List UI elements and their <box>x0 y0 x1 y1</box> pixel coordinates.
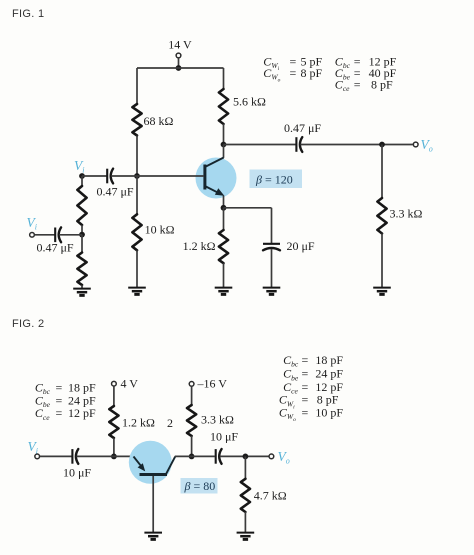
svg-text:5.6 kΩ: 5.6 kΩ <box>233 95 266 109</box>
label Vo <box>421 137 433 154</box>
resistor RL 4.7k fig2 <box>241 479 250 512</box>
resistor RL 3.3k <box>377 198 386 234</box>
wire RC to collector line <box>191 436 193 456</box>
node output junction <box>379 142 385 148</box>
node divider junction <box>134 173 140 179</box>
transistor Q1 highlight <box>196 158 237 199</box>
transistor Q1 collector lead <box>205 158 224 168</box>
wire input to Cs <box>35 234 55 236</box>
wire emitter branch horizontal <box>224 207 272 209</box>
wire collector to C2 fig2 <box>175 455 215 457</box>
wire supply stub <box>178 58 180 68</box>
svg-text:Vi: Vi <box>27 215 37 232</box>
wire R3 to collector node <box>223 124 225 145</box>
label 5.6 kOhm <box>233 95 266 109</box>
wire output to RL fig2 <box>244 456 246 478</box>
label Cbc list2 right <box>283 353 343 369</box>
ground Q2 base <box>144 533 162 540</box>
svg-text:68 kΩ: 68 kΩ <box>144 114 174 128</box>
svg-text:Vi: Vi <box>74 158 84 175</box>
transistor Q1 emitter lead <box>205 186 220 194</box>
supply label 14 V <box>168 37 192 51</box>
svg-text:FIG. 2: FIG. 2 <box>12 318 44 330</box>
supply terminal 4V <box>112 381 117 386</box>
transistor Q1 base bar <box>203 165 206 190</box>
node supply junction <box>176 65 182 71</box>
label 10 uF output fig2 <box>210 430 238 444</box>
label 68 kOhm <box>144 114 174 128</box>
transistor Q2 emitter lead <box>134 457 143 468</box>
svg-text:FIG. 1: FIG. 1 <box>12 8 44 20</box>
svg-text:0.47 μF: 0.47 μF <box>37 241 74 255</box>
wire R4 to ground <box>223 263 225 287</box>
label 3.3 kOhm <box>390 207 423 221</box>
supply terminal -16V <box>189 382 194 387</box>
label Cce list2 right <box>283 380 343 396</box>
label Cbc = 12 pF <box>335 55 397 71</box>
wire RL to ground <box>381 234 383 288</box>
transistor Q1 emitter arrow <box>215 188 224 196</box>
supply terminal 14V <box>176 53 181 58</box>
svg-text:1.2 kΩ: 1.2 kΩ <box>183 239 216 253</box>
label 4.7 kOhm fig2 <box>254 489 287 503</box>
label Cce = 8 pF <box>335 78 393 94</box>
resistor RC 3.3k fig2 <box>187 405 196 436</box>
svg-text:20 μF: 20 μF <box>287 239 315 253</box>
wire base node to R2 <box>136 176 138 214</box>
wire R1 to base node <box>136 136 138 177</box>
wire R2 to ground <box>136 250 138 287</box>
label Vo fig2 <box>278 449 290 466</box>
label CWo list2 right <box>279 405 344 423</box>
wire Vi node to Cb <box>82 175 107 177</box>
label CWi list2 right <box>279 393 339 411</box>
svg-text:0.47 μF: 0.47 μF <box>97 185 134 199</box>
label 1.2 kOhm <box>183 239 216 253</box>
ground CE <box>263 288 281 295</box>
label CWi = 5 pF <box>263 55 322 73</box>
label 0.47 uF output cap <box>284 121 321 135</box>
wire to CE cap <box>271 208 273 244</box>
wire Vi node to Rupper <box>81 176 83 186</box>
svg-text:4 V: 4 V <box>121 377 139 391</box>
label 20 uF <box>287 239 315 253</box>
label 10 uF input fig2 <box>63 466 91 480</box>
supply label 4 V <box>121 377 139 391</box>
wire 4V stub <box>113 386 115 406</box>
capacitor Cb 0.47uF <box>107 169 113 184</box>
label node Vi <box>74 158 84 175</box>
ground RL <box>373 288 391 295</box>
capacitor C1 10uF fig2 <box>72 449 78 464</box>
label CWo = 8 pF <box>263 66 322 84</box>
svg-text:–16 V: –16 V <box>197 377 228 391</box>
svg-text:10 kΩ: 10 kΩ <box>145 223 175 237</box>
capacitor C2 10uF fig2 <box>216 449 222 464</box>
resistor R1 68k <box>132 104 141 136</box>
svg-text:3.3 kΩ: 3.3 kΩ <box>390 207 423 221</box>
wire Cb to base <box>111 175 204 177</box>
svg-text:Vo: Vo <box>421 137 433 154</box>
wire emitter stub <box>223 196 225 208</box>
label 10 kOhm <box>145 223 175 237</box>
svg-text:1.2 kΩ: 1.2 kΩ <box>122 416 155 430</box>
svg-text:3.3 kΩ: 3.3 kΩ <box>201 413 234 427</box>
wire left drop to R1 <box>136 68 138 104</box>
wire Rupper to junction <box>81 225 83 235</box>
label Cbe = 40 pF <box>335 66 397 82</box>
node emitter junction fig2 <box>111 454 117 460</box>
capacitor CE 20uF <box>263 244 280 251</box>
label 0.47 uF input cap <box>37 241 74 255</box>
transistor Q2 collector lead <box>166 457 175 474</box>
svg-text:β = 80: β = 80 <box>184 479 216 493</box>
wire Cc to output <box>300 144 413 146</box>
label beta 80 box <box>181 478 218 494</box>
ground R2 <box>128 288 146 295</box>
svg-text:10 μF: 10 μF <box>210 430 238 444</box>
input terminal <box>30 232 35 237</box>
svg-text:10 μF: 10 μF <box>63 466 91 480</box>
ground R4 <box>215 288 233 295</box>
wire emitter to R4 <box>223 208 225 230</box>
label Cbe list2 right <box>283 367 343 383</box>
svg-text:14 V: 14 V <box>168 37 192 51</box>
node input junction <box>79 232 85 238</box>
label Cce list2 left <box>35 406 96 422</box>
output terminal <box>413 142 418 147</box>
resistor Rlower input <box>77 253 86 286</box>
label beta 80 <box>184 479 216 493</box>
transistor Q2 base bar <box>140 473 168 476</box>
resistor Rupper input <box>77 186 86 225</box>
wire input to C1 fig2 <box>40 455 72 457</box>
ground input branch <box>73 289 91 296</box>
label 3.3 kOhm fig2 <box>201 413 234 427</box>
wire CE cap to ground <box>271 249 273 287</box>
node collector <box>221 142 227 148</box>
svg-text:4.7 kΩ: 4.7 kΩ <box>254 489 287 503</box>
svg-text:Vo: Vo <box>278 449 290 466</box>
figure label FIG. 2 <box>12 318 44 330</box>
label numeral 2 <box>167 416 173 430</box>
node Vi <box>79 173 85 179</box>
label beta 120 box <box>250 170 303 189</box>
wire top rail <box>137 67 224 69</box>
supply label -16 V <box>197 377 228 391</box>
label Cbe list2 left <box>35 394 96 410</box>
wire RE to emitter line <box>113 438 115 456</box>
resistor RE 1.2k fig2 <box>109 406 118 438</box>
wire collector stub <box>223 145 225 158</box>
wire C2 to output fig2 <box>220 455 269 457</box>
ground RL fig2 <box>237 533 255 540</box>
figure label FIG. 1 <box>12 8 44 20</box>
svg-text:Vi: Vi <box>28 439 38 456</box>
wire C1 to emitter fig2 <box>76 455 133 457</box>
label beta 120 <box>255 173 293 187</box>
wire right drop to R3 <box>223 68 225 89</box>
svg-text:β = 120: β = 120 <box>255 173 293 187</box>
wire -16V stub <box>191 387 193 405</box>
wire RL to ground fig2 <box>244 512 246 533</box>
wire collector to Cc <box>224 144 296 146</box>
wire Q2 base to ground <box>152 476 154 533</box>
input terminal fig2 <box>35 454 40 459</box>
transistor Q2 highlight <box>129 441 172 484</box>
transistor Q2 emitter arrow <box>138 463 146 471</box>
capacitor Cs 0.47uF <box>55 227 61 242</box>
label input Vi <box>27 215 37 232</box>
output terminal fig2 <box>269 454 274 459</box>
label Cbc list2 left <box>35 381 96 397</box>
wire junction to Rlower <box>81 235 83 253</box>
label 1.2 kOhm fig2 <box>122 416 155 430</box>
wire output to RL <box>381 145 383 199</box>
resistor R4 1.2k <box>219 230 228 263</box>
node output junction fig2 <box>243 454 249 460</box>
label input Vi fig2 <box>28 439 38 456</box>
node collector junction fig2 <box>189 454 195 460</box>
svg-text:2: 2 <box>167 416 173 430</box>
wire Rlower to ground <box>81 285 83 289</box>
wire Cs to junction <box>59 234 82 236</box>
resistor R3 5.6k <box>219 89 228 124</box>
resistor R2 10k <box>132 214 141 250</box>
svg-text:0.47 μF: 0.47 μF <box>284 121 321 135</box>
label 0.47 uF base cap <box>97 185 134 199</box>
capacitor Cc 0.47uF <box>296 137 302 152</box>
node emitter <box>221 205 227 211</box>
